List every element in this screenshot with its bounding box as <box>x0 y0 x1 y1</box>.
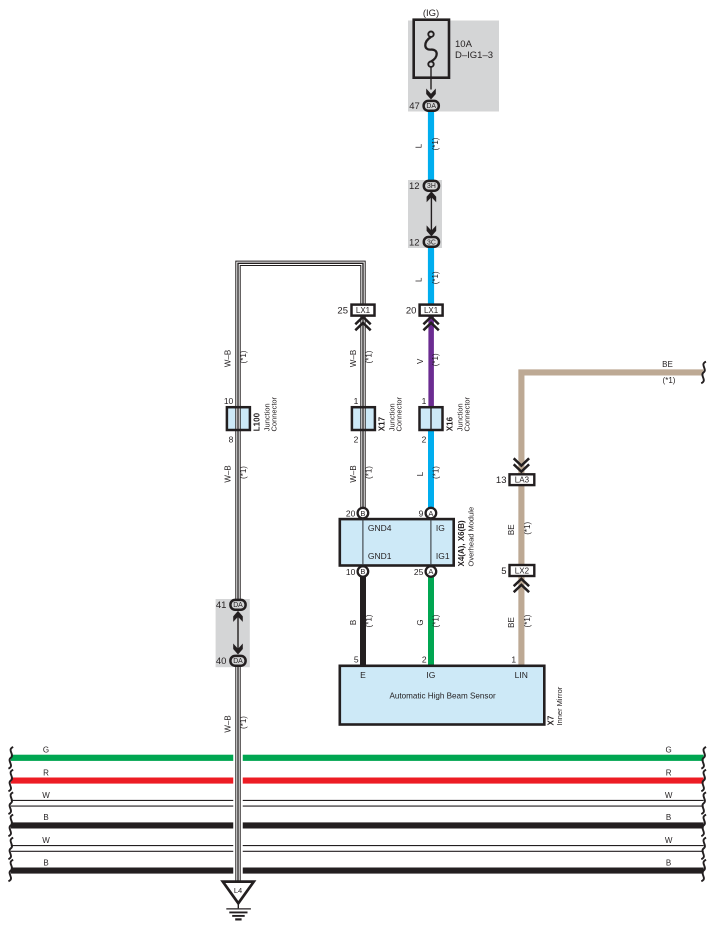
svg-text:D–IG1–3: D–IG1–3 <box>455 50 493 61</box>
svg-text:(*1): (*1) <box>431 353 440 366</box>
svg-text:2: 2 <box>422 435 427 445</box>
svg-text:1: 1 <box>354 396 359 406</box>
svg-text:10A: 10A <box>455 39 473 50</box>
svg-text:A: A <box>428 567 433 576</box>
svg-text:X16: X16 <box>446 416 455 431</box>
svg-text:BE: BE <box>507 617 516 628</box>
svg-text:3C: 3C <box>427 239 436 246</box>
svg-text:8: 8 <box>229 435 234 445</box>
svg-text:X4(A), X6(B): X4(A), X6(B) <box>457 520 466 567</box>
svg-text:W: W <box>42 836 50 845</box>
svg-text:R: R <box>43 768 49 777</box>
svg-text:(*1): (*1) <box>364 614 373 627</box>
svg-text:2: 2 <box>354 435 359 445</box>
svg-text:R: R <box>666 768 672 777</box>
svg-text:LIN: LIN <box>515 670 528 680</box>
svg-text:25: 25 <box>337 305 348 316</box>
svg-text:9: 9 <box>419 508 424 518</box>
svg-text:40: 40 <box>216 656 227 667</box>
svg-text:LA3: LA3 <box>515 476 530 485</box>
svg-text:W–B: W–B <box>223 465 232 482</box>
svg-text:10: 10 <box>224 396 234 406</box>
svg-text:1: 1 <box>511 654 516 664</box>
svg-text:(*1): (*1) <box>239 350 248 363</box>
svg-text:L: L <box>415 143 424 148</box>
svg-text:GND4: GND4 <box>368 523 392 533</box>
svg-text:13: 13 <box>496 475 507 486</box>
svg-text:W: W <box>42 791 50 800</box>
svg-text:Automatic High Beam Sensor: Automatic High Beam Sensor <box>390 691 496 700</box>
svg-text:LX1: LX1 <box>356 306 371 315</box>
svg-text:2: 2 <box>422 654 427 664</box>
svg-text:3H: 3H <box>427 183 436 190</box>
svg-text:L100: L100 <box>253 412 262 431</box>
svg-text:G: G <box>416 619 425 625</box>
svg-text:20: 20 <box>346 508 356 518</box>
svg-text:Connector: Connector <box>270 396 279 431</box>
svg-text:Connector: Connector <box>463 396 472 431</box>
svg-text:W: W <box>665 836 673 845</box>
svg-text:X17: X17 <box>378 416 387 431</box>
svg-text:47: 47 <box>409 101 420 112</box>
svg-text:(*1): (*1) <box>432 466 441 479</box>
svg-text:(*1): (*1) <box>663 376 676 385</box>
svg-text:B: B <box>43 858 48 867</box>
svg-text:(*1): (*1) <box>431 137 440 150</box>
svg-text:Connector: Connector <box>395 396 404 431</box>
svg-text:IG: IG <box>426 670 435 680</box>
svg-text:DA: DA <box>233 602 243 609</box>
svg-text:B: B <box>666 813 671 822</box>
svg-text:W–B: W–B <box>349 350 358 367</box>
svg-text:GND1: GND1 <box>368 551 392 561</box>
svg-text:B: B <box>360 567 365 576</box>
svg-text:W–B: W–B <box>223 715 232 732</box>
svg-text:B: B <box>43 813 48 822</box>
svg-text:W–B: W–B <box>223 350 232 367</box>
svg-text:IG1: IG1 <box>436 551 450 561</box>
svg-text:LX2: LX2 <box>515 567 530 576</box>
svg-text:(*1): (*1) <box>364 466 373 479</box>
svg-text:B: B <box>360 509 365 518</box>
svg-text:A: A <box>428 509 433 518</box>
svg-text:B: B <box>666 858 671 867</box>
svg-text:1: 1 <box>422 396 427 406</box>
svg-text:(*1): (*1) <box>432 614 441 627</box>
svg-text:E: E <box>360 670 366 680</box>
svg-text:(*1): (*1) <box>523 614 532 627</box>
svg-text:5: 5 <box>501 566 506 577</box>
svg-text:20: 20 <box>406 305 417 316</box>
svg-text:G: G <box>665 746 671 755</box>
svg-text:G: G <box>43 746 49 755</box>
svg-text:BE: BE <box>662 360 673 369</box>
svg-text:IG: IG <box>436 523 445 533</box>
svg-text:5: 5 <box>354 654 359 664</box>
svg-text:(IG): (IG) <box>423 8 439 19</box>
svg-text:(*1): (*1) <box>239 466 248 479</box>
svg-text:W–B: W–B <box>349 465 358 482</box>
svg-text:Inner Mirror: Inner Mirror <box>555 686 564 725</box>
svg-text:10: 10 <box>346 567 356 577</box>
svg-text:25: 25 <box>414 567 424 577</box>
svg-text:L: L <box>416 471 425 476</box>
svg-text:B: B <box>349 620 358 625</box>
svg-text:(*1): (*1) <box>364 350 373 363</box>
svg-text:Overhead Module: Overhead Module <box>467 507 476 567</box>
svg-text:V: V <box>416 358 425 364</box>
svg-text:(*1): (*1) <box>431 271 440 284</box>
svg-text:W: W <box>665 791 673 800</box>
svg-text:12: 12 <box>409 237 420 248</box>
svg-text:L4: L4 <box>234 886 242 895</box>
svg-text:DA: DA <box>233 658 243 665</box>
svg-text:(*1): (*1) <box>239 716 248 729</box>
svg-text:41: 41 <box>216 600 227 611</box>
svg-text:X7: X7 <box>546 715 555 725</box>
svg-text:(*1): (*1) <box>523 522 532 535</box>
svg-text:BE: BE <box>507 524 516 535</box>
svg-text:12: 12 <box>409 181 420 192</box>
svg-text:DA: DA <box>426 103 436 110</box>
svg-text:L: L <box>415 277 424 282</box>
svg-text:LX1: LX1 <box>424 306 439 315</box>
